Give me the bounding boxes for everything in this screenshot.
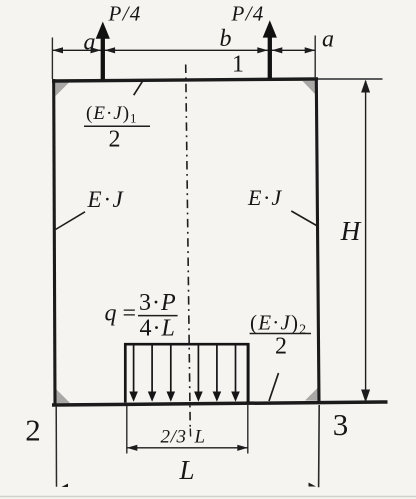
svg-text:L: L	[194, 426, 206, 447]
load arrow 5	[213, 346, 222, 402]
right column	[316, 78, 319, 404]
centerline axis (dash-dot)	[186, 65, 191, 428]
top dimension line a+b+a	[52, 49, 315, 51]
force P/4 left: shaft	[101, 37, 105, 80]
fraction bar	[138, 315, 178, 317]
svg-text:E·J: E·J	[87, 187, 126, 212]
dim arrow at right end (tip right)	[305, 47, 316, 53]
svg-text:H: H	[340, 216, 362, 246]
svg-text:q =: q =	[105, 301, 137, 327]
gusset top-right	[303, 81, 316, 94]
svg-text:2: 2	[275, 334, 287, 360]
dim arrows at force 1 shaft	[91, 47, 102, 53]
distributed load: top line	[124, 343, 249, 346]
distributed load: right edge	[247, 343, 250, 403]
H arrow down	[361, 390, 370, 403]
fraction bar	[84, 125, 150, 127]
svg-text:b: b	[220, 26, 232, 52]
H dimension line	[365, 81, 367, 402]
load arrow 6	[231, 346, 240, 402]
svg-text:a: a	[84, 29, 96, 55]
L dimension left arrow fragment	[62, 484, 69, 488]
svg-text:L: L	[178, 455, 194, 485]
left column	[54, 79, 55, 405]
leader line E·J right to column	[291, 211, 316, 226]
load arrow 3	[167, 346, 176, 402]
top dimension extension line right	[314, 36, 316, 79]
leader line to bottom beam	[269, 373, 279, 401]
load arrow 4	[194, 346, 203, 402]
gusset bottom-right	[305, 388, 318, 401]
leader line to top beam	[134, 80, 143, 95]
dim arrows at force 2 shaft	[257, 47, 268, 53]
gusset top-left	[56, 83, 70, 97]
distributed load: left edge	[124, 343, 127, 403]
load arrow 1	[129, 346, 138, 402]
L dimension right arrow fragment	[309, 483, 317, 487]
force P/4 right: shaft	[268, 36, 272, 79]
fraction bar	[250, 333, 311, 335]
extension line left (below bottom beam, for L dimension)	[55, 406, 57, 487]
force P/4 left: arrowhead	[96, 22, 110, 39]
beam 1 (top beam of frame)	[52, 79, 318, 81]
2/3 L dimension line	[127, 447, 248, 449]
svg-text:(E·J)1: (E·J)1	[86, 103, 138, 126]
extension line right (below bottom beam, for L dimension)	[318, 405, 321, 487]
force P/4 right: arrowhead	[263, 20, 277, 37]
svg-text:a: a	[322, 26, 334, 52]
2/3 L dimension extension left	[126, 406, 128, 454]
top dimension extension line left	[51, 38, 53, 80]
svg-text:P/4: P/4	[108, 1, 142, 25]
dim arrow at left end (tip left)	[52, 47, 63, 53]
svg-text:1: 1	[232, 52, 244, 78]
2/3 L arrow left	[127, 445, 138, 451]
2/3 L arrow right	[237, 445, 248, 451]
svg-text:2: 2	[109, 126, 121, 152]
svg-text:P/4: P/4	[231, 2, 265, 26]
svg-text:E·J: E·J	[247, 185, 283, 210]
svg-text:2: 2	[25, 412, 41, 447]
2/3 L dimension extension right	[247, 405, 249, 454]
gusset bottom-left	[57, 390, 71, 404]
load arrow 2	[148, 346, 157, 402]
bottom beam of frame	[52, 402, 388, 405]
svg-text:2/3: 2/3	[161, 426, 187, 447]
svg-text:3: 3	[333, 407, 349, 442]
leader line E·J left to column	[56, 212, 86, 230]
centerline tick between 2/3 and L	[189, 429, 191, 437]
top beam extension line (to H dimension)	[318, 78, 383, 80]
page bottom scan smudge	[0, 496, 416, 498]
H arrow up	[361, 80, 370, 93]
svg-text:4·L: 4·L	[140, 315, 176, 341]
svg-text:3·P: 3·P	[139, 290, 177, 316]
